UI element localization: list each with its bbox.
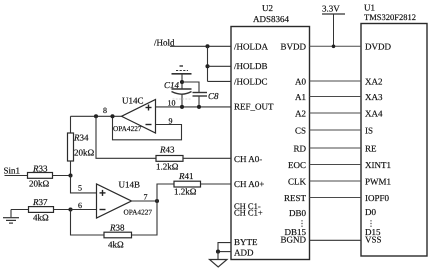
svg-text:8: 8: [103, 106, 107, 115]
svg-text:A0: A0: [295, 77, 306, 87]
capacitor C14: [164, 80, 192, 94]
svg-text:D0: D0: [365, 207, 376, 217]
svg-text:ADD: ADD: [234, 248, 254, 258]
wire BYTE: [218, 243, 231, 252]
svg-text:CS: CS: [295, 126, 306, 136]
svg-text:U2: U2: [262, 3, 273, 13]
wire rail to C14: [181, 74, 183, 89]
svg-text:R37: R37: [32, 197, 48, 207]
wire A1 to XA3: [310, 96, 362, 98]
svg-text:A1: A1: [295, 92, 306, 102]
wire U14C feedback loop: [113, 116, 182, 140]
IC U1 TMS320F2812 body: [361, 3, 427, 257]
resistor R43: [156, 145, 183, 172]
svg-text:10: 10: [168, 98, 176, 107]
wire R37 to node: [54, 209, 71, 211]
svg-text:/HOLDB: /HOLDB: [234, 61, 268, 71]
svg-text:TMS320F2812: TMS320F2812: [364, 12, 416, 22]
svg-text:BYTE: BYTE: [234, 237, 258, 247]
wire output up to R41: [157, 184, 174, 201]
svg-text:PWM1: PWM1: [365, 177, 391, 187]
wire ghost artifact: [173, 98, 192, 100]
wire REST to IOPF0: [310, 197, 362, 199]
svg-text:BVDD: BVDD: [280, 42, 306, 52]
node BYTE/ADD: [216, 250, 220, 254]
svg-text:R38: R38: [109, 223, 125, 233]
svg-text:4kΩ: 4kΩ: [33, 213, 49, 223]
svg-text:C8: C8: [208, 91, 219, 101]
svg-text:6: 6: [78, 201, 82, 210]
wire output to R43 row: [96, 116, 156, 158]
wire R34 to Sin1 node: [70, 161, 72, 176]
svg-text:RE: RE: [365, 144, 377, 154]
svg-text:U14C: U14C: [122, 96, 144, 106]
svg-text:REF_OUT: REF_OUT: [234, 102, 274, 112]
svg-text:3.3V: 3.3V: [322, 4, 340, 14]
resistor R41: [174, 171, 201, 197]
power 3.3V: [322, 4, 345, 47]
svg-text:OPA4227: OPA4227: [113, 124, 142, 133]
wire R43 to CH A0-: [183, 157, 231, 159]
wire U14C +in to REF_OUT pin: [156, 106, 232, 108]
node C14/C8 branch: [180, 80, 184, 84]
node U14B output: [155, 199, 159, 203]
U1 left pin labels: [365, 42, 391, 245]
wire CLK to PWM1: [310, 180, 362, 182]
U2 right pin labels: [280, 42, 306, 245]
resistor R37: [29, 197, 54, 223]
ground (R37): [3, 210, 19, 224]
svg-text:/HOLDA: /HOLDA: [234, 42, 268, 52]
wire node to U14B -in: [71, 209, 97, 211]
wire R41 to CH A0+: [201, 183, 232, 185]
op-amp U14C: [113, 96, 156, 134]
IC U2 ADS8364 body: [231, 3, 310, 260]
resistor R38: [104, 223, 132, 250]
svg-text:CH C1+: CH C1+: [234, 208, 263, 218]
wire C14 to REF_OUT node: [181, 94, 183, 107]
svg-text:XA3: XA3: [365, 92, 383, 102]
wire output down to R38: [132, 201, 158, 235]
svg-text:ADS8364: ADS8364: [253, 14, 290, 24]
ground (BYTE/ADD): [210, 260, 228, 268]
node C14 at REF_OUT: [180, 105, 184, 109]
svg-text:20kΩ: 20kΩ: [74, 148, 95, 158]
svg-text:IS: IS: [365, 126, 373, 136]
wire ADD: [218, 251, 231, 253]
node 3.3V/BVDD junction: [332, 45, 336, 49]
U2 left pin labels: [234, 42, 274, 258]
svg-text:4kΩ: 4kΩ: [108, 240, 124, 250]
wire /Hold vertical drop: [207, 46, 209, 81]
wire RD to RE: [310, 147, 362, 149]
power rail symbol above C14: [172, 66, 192, 74]
svg-text:EOC: EOC: [288, 160, 306, 170]
node R43 branch: [94, 114, 98, 118]
wire A2 to XA4: [310, 112, 362, 114]
resistor R33: [28, 164, 53, 189]
svg-text:IOPF0: IOPF0: [365, 193, 390, 203]
svg-text:A2: A2: [295, 109, 306, 119]
node /Hold branch A: [205, 44, 209, 48]
wire /Hold to /HOLDA: [170, 45, 231, 47]
wire to /HOLDB: [208, 65, 232, 67]
svg-text:Sin1: Sin1: [4, 166, 21, 176]
resistor R34: [68, 133, 95, 162]
svg-text:CLK: CLK: [288, 177, 307, 187]
svg-text:CH A0-: CH A0-: [234, 154, 262, 164]
wire ground to R37: [11, 209, 29, 211]
wire R38 to -in node: [71, 210, 105, 236]
wire BGND to VSS: [310, 239, 362, 241]
wire Sin1 to R33: [5, 175, 28, 177]
wire R33 to node: [53, 175, 71, 177]
wire CS to IS: [310, 129, 362, 131]
svg-text:CH A0+: CH A0+: [234, 179, 264, 189]
svg-text:1.2kΩ: 1.2kΩ: [156, 162, 179, 172]
wire C8 to REF_OUT node: [198, 96, 200, 107]
svg-text:OPA4227: OPA4227: [124, 208, 153, 217]
wire to /HOLDC: [208, 80, 232, 82]
svg-text:7: 7: [144, 193, 148, 202]
svg-text:20kΩ: 20kΩ: [29, 179, 50, 189]
svg-text:R33: R33: [32, 164, 48, 174]
wire node to ground: [217, 252, 219, 260]
node /Hold branch B: [205, 64, 209, 68]
svg-text:C14: C14: [164, 80, 180, 90]
svg-text:R41: R41: [178, 171, 194, 181]
svg-text:DB0: DB0: [289, 208, 307, 218]
svg-text:R43: R43: [159, 145, 175, 155]
node Sin1/R34: [68, 173, 72, 177]
node feedback/output: [110, 114, 114, 118]
capacitor C8: [193, 91, 220, 101]
wire U14B output: [132, 200, 158, 202]
svg-text:XA2: XA2: [365, 77, 383, 87]
wire node to U14B +in: [71, 176, 97, 193]
svg-text:R34: R34: [73, 133, 89, 143]
svg-text:XINT1: XINT1: [365, 160, 391, 170]
op-amp U14B: [97, 180, 153, 219]
svg-text:/HOLDC: /HOLDC: [234, 77, 268, 87]
svg-text:VSS: VSS: [365, 235, 382, 245]
node C8 at REF_OUT: [197, 105, 201, 109]
svg-text:5: 5: [78, 184, 82, 193]
wire A0 to XA2: [310, 80, 362, 82]
svg-text:U1: U1: [364, 3, 375, 13]
svg-text:DVDD: DVDD: [365, 42, 391, 52]
wire BVDD to DVDD: [310, 45, 362, 47]
wire U14C output: [71, 115, 122, 117]
wire branch to C8: [182, 82, 199, 93]
node R37/R38/pin6: [68, 207, 72, 211]
svg-text:XA4: XA4: [365, 109, 383, 119]
svg-text:U14B: U14B: [119, 180, 141, 190]
wire EOC to XINT1: [310, 164, 362, 166]
svg-text:BGND: BGND: [280, 235, 306, 245]
svg-text:REST: REST: [284, 193, 307, 203]
wire output to R34: [70, 116, 72, 133]
svg-text:RD: RD: [293, 144, 306, 154]
svg-text:1.2kΩ: 1.2kΩ: [174, 187, 197, 197]
